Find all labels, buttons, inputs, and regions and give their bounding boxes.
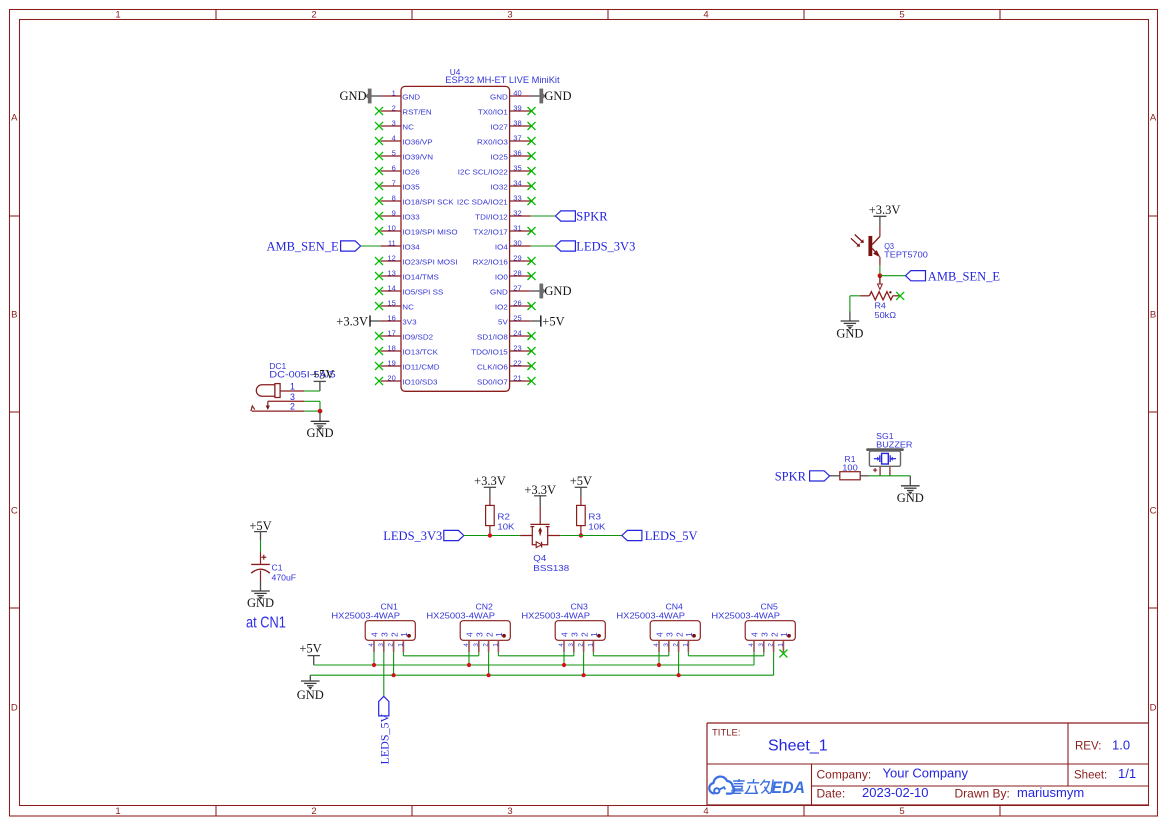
svg-text:GND: GND: [490, 93, 508, 102]
svg-text:1/1: 1/1: [1118, 766, 1136, 781]
svg-text:Date:: Date:: [817, 787, 846, 801]
svg-text:Drawn By:: Drawn By:: [955, 787, 1010, 801]
svg-text:17: 17: [387, 330, 396, 337]
svg-text:4: 4: [558, 643, 565, 647]
svg-text:IO4: IO4: [495, 243, 508, 252]
svg-text:LEDS_3V3: LEDS_3V3: [383, 529, 442, 543]
svg-text:4: 4: [750, 632, 760, 637]
svg-text:3: 3: [663, 643, 670, 647]
svg-text:RX2/IO16: RX2/IO16: [473, 258, 508, 267]
svg-text:16: 16: [387, 315, 396, 322]
svg-text:2: 2: [392, 105, 396, 112]
svg-text:AMB_SEN_E: AMB_SEN_E: [928, 269, 1001, 283]
svg-text:10: 10: [387, 225, 396, 232]
svg-text:2: 2: [768, 643, 775, 647]
svg-text:Sheet:: Sheet:: [1074, 770, 1107, 782]
svg-text:SPKR: SPKR: [775, 470, 807, 484]
svg-text:2: 2: [673, 643, 680, 647]
svg-text:1: 1: [392, 90, 396, 97]
svg-text:IO18/SPI SCK: IO18/SPI SCK: [402, 198, 453, 207]
svg-text:2: 2: [388, 643, 395, 647]
svg-text:31: 31: [513, 225, 522, 232]
svg-text:2: 2: [579, 632, 589, 637]
svg-text:IO35: IO35: [402, 183, 419, 192]
svg-text:3: 3: [568, 643, 575, 647]
svg-text:Sheet_1: Sheet_1: [768, 738, 828, 755]
svg-text:GND: GND: [544, 284, 571, 298]
svg-text:mariusmym: mariusmym: [1017, 785, 1084, 800]
svg-text:1: 1: [115, 806, 120, 817]
svg-text:3: 3: [665, 632, 675, 637]
svg-text:C1: C1: [272, 564, 284, 573]
svg-text:4: 4: [465, 632, 475, 637]
svg-text:LEDS_3V3: LEDS_3V3: [576, 240, 635, 254]
svg-text:3: 3: [570, 632, 580, 637]
svg-text:RX0/IO3: RX0/IO3: [477, 138, 508, 147]
svg-text:3: 3: [758, 643, 765, 647]
svg-text:4: 4: [703, 806, 708, 817]
svg-text:TITLE:: TITLE:: [712, 728, 741, 739]
svg-text:B: B: [11, 309, 17, 320]
svg-text:R2: R2: [497, 513, 510, 522]
svg-text:5: 5: [392, 150, 396, 157]
svg-text:RST/EN: RST/EN: [402, 108, 431, 117]
svg-text:3: 3: [392, 120, 396, 127]
svg-text:GND: GND: [897, 491, 924, 505]
svg-text:Q3: Q3: [884, 242, 894, 251]
svg-text:7: 7: [392, 180, 396, 187]
svg-text:470uF: 470uF: [272, 573, 297, 582]
svg-text:4: 4: [703, 9, 708, 20]
svg-text:3: 3: [507, 9, 512, 20]
svg-text:5: 5: [899, 9, 904, 20]
svg-text:32: 32: [513, 210, 522, 217]
svg-text:21: 21: [513, 375, 522, 382]
svg-text:4: 4: [560, 632, 570, 637]
svg-text:3: 3: [380, 632, 390, 637]
svg-text:IO34: IO34: [402, 243, 419, 252]
svg-text:TDO/IO15: TDO/IO15: [471, 348, 508, 357]
svg-text:4: 4: [653, 643, 660, 647]
svg-text:IO13/TCK: IO13/TCK: [402, 348, 438, 357]
svg-text:29: 29: [513, 255, 522, 262]
svg-text:LEDS_5V: LEDS_5V: [377, 714, 391, 765]
svg-text:C: C: [11, 505, 18, 516]
svg-text:B: B: [1150, 309, 1156, 320]
svg-text:SD1/IO8: SD1/IO8: [477, 333, 508, 342]
svg-text:1: 1: [493, 643, 500, 647]
svg-text:GND: GND: [306, 426, 333, 440]
svg-text:4: 4: [370, 632, 380, 637]
svg-text:2: 2: [769, 632, 779, 637]
svg-text:2023-02-10: 2023-02-10: [862, 785, 929, 800]
svg-text:14: 14: [387, 285, 396, 292]
svg-text:IO23/SPI MOSI: IO23/SPI MOSI: [402, 258, 457, 267]
svg-text:37: 37: [513, 135, 522, 142]
svg-text:GND: GND: [402, 93, 420, 102]
svg-text:4: 4: [748, 643, 755, 647]
svg-text:1: 1: [683, 643, 690, 647]
svg-text:+5V: +5V: [570, 474, 592, 488]
svg-text:20: 20: [387, 375, 396, 382]
svg-text:36: 36: [513, 150, 522, 157]
svg-text:23: 23: [513, 345, 522, 352]
svg-text:+3.3V: +3.3V: [869, 203, 901, 217]
svg-text:28: 28: [513, 270, 522, 277]
svg-text:IO11/CMD: IO11/CMD: [402, 363, 440, 372]
svg-text:34: 34: [513, 180, 522, 187]
svg-text:+3.3V: +3.3V: [336, 315, 368, 329]
svg-text:33: 33: [513, 195, 522, 202]
svg-text:1: 1: [588, 643, 595, 647]
svg-text:GND: GND: [297, 688, 324, 702]
svg-text:2: 2: [483, 643, 490, 647]
svg-text:Your Company: Your Company: [883, 766, 969, 781]
svg-text:40: 40: [513, 90, 522, 97]
svg-text:+5V: +5V: [299, 641, 321, 655]
svg-text:AMB_SEN_E: AMB_SEN_E: [266, 240, 339, 254]
svg-text:IO36/VP: IO36/VP: [402, 138, 432, 147]
svg-text:30: 30: [513, 240, 522, 247]
svg-text:I2C SDA/IO21: I2C SDA/IO21: [457, 198, 508, 207]
svg-text:TEPT5700: TEPT5700: [884, 251, 928, 260]
svg-text:IO39/VN: IO39/VN: [402, 153, 433, 162]
svg-text:GND: GND: [340, 89, 367, 103]
svg-text:3: 3: [507, 806, 512, 817]
svg-text:IO32: IO32: [490, 183, 507, 192]
svg-text:IO26: IO26: [402, 168, 419, 177]
svg-text:NC: NC: [402, 303, 414, 312]
svg-text:19: 19: [387, 360, 396, 367]
svg-text:38: 38: [513, 120, 522, 127]
svg-text:at CN1: at CN1: [246, 615, 286, 632]
svg-text:8: 8: [392, 195, 396, 202]
svg-text:NC: NC: [402, 123, 414, 132]
svg-text:HX25003-4WAP: HX25003-4WAP: [426, 610, 495, 620]
svg-text:TX0/IO1: TX0/IO1: [478, 108, 508, 117]
svg-text:SD0/IO7: SD0/IO7: [477, 378, 508, 387]
svg-text:Q4: Q4: [533, 554, 547, 563]
svg-text:IO19/SPI MISO: IO19/SPI MISO: [402, 228, 457, 237]
svg-text:GND: GND: [490, 288, 508, 297]
svg-text:2: 2: [578, 643, 585, 647]
svg-text:1: 1: [684, 632, 694, 637]
svg-text:+5V: +5V: [542, 315, 564, 329]
svg-text:SPKR: SPKR: [576, 210, 608, 224]
svg-text:BSS138: BSS138: [533, 564, 570, 573]
svg-text:11: 11: [388, 240, 396, 247]
svg-text:R3: R3: [588, 513, 601, 522]
svg-text:10K: 10K: [588, 523, 606, 532]
svg-text:1: 1: [589, 632, 599, 637]
svg-text:18: 18: [387, 345, 396, 352]
svg-text:GND: GND: [247, 596, 274, 610]
svg-text:BUZZER: BUZZER: [876, 440, 913, 449]
svg-text:27: 27: [513, 285, 522, 292]
svg-text:5V: 5V: [498, 318, 508, 327]
svg-text:3: 3: [378, 643, 385, 647]
svg-text:5: 5: [899, 806, 904, 817]
svg-text:25: 25: [513, 315, 522, 322]
svg-text:IO14/TMS: IO14/TMS: [402, 273, 439, 282]
svg-text:IO2: IO2: [495, 303, 508, 312]
svg-text:GND: GND: [544, 89, 571, 103]
svg-text:100: 100: [842, 463, 858, 472]
svg-text:EDA: EDA: [772, 779, 806, 797]
svg-text:IO27: IO27: [490, 123, 507, 132]
svg-text:IO5/SPI SS: IO5/SPI SS: [402, 288, 443, 297]
svg-text:10K: 10K: [497, 523, 515, 532]
svg-text:TX2/IO17: TX2/IO17: [473, 228, 507, 237]
svg-text:4: 4: [655, 632, 665, 637]
svg-text:ESP32 MH-ET LIVE MiniKit: ESP32 MH-ET LIVE MiniKit: [445, 75, 560, 85]
svg-text:TDI/IO12: TDI/IO12: [475, 213, 508, 222]
svg-text:REV:: REV:: [1075, 741, 1101, 753]
svg-text:1: 1: [778, 643, 785, 647]
svg-text:HX25003-4WAP: HX25003-4WAP: [521, 610, 590, 620]
svg-text:22: 22: [513, 360, 522, 367]
svg-text:IO33: IO33: [402, 213, 419, 222]
svg-text:1: 1: [779, 632, 789, 637]
svg-text:+3.3V: +3.3V: [524, 483, 556, 497]
svg-text:2: 2: [290, 402, 295, 412]
svg-text:Company:: Company:: [817, 768, 872, 782]
svg-text:D: D: [11, 702, 18, 713]
svg-text:A: A: [1150, 112, 1157, 123]
svg-text:+5V: +5V: [312, 368, 334, 382]
svg-text:2: 2: [389, 632, 399, 637]
svg-text:13: 13: [387, 270, 396, 277]
svg-text:50kΩ: 50kΩ: [875, 311, 897, 320]
svg-text:4: 4: [463, 643, 470, 647]
svg-text:1.0: 1.0: [1112, 738, 1130, 753]
svg-text:3: 3: [290, 392, 295, 402]
svg-text:4: 4: [368, 643, 375, 647]
svg-text:1: 1: [494, 632, 504, 637]
svg-text:2: 2: [484, 632, 494, 637]
svg-text:2: 2: [674, 632, 684, 637]
svg-text:IO10/SD3: IO10/SD3: [402, 378, 437, 387]
svg-text:IO0: IO0: [495, 273, 508, 282]
svg-text:HX25003-4WAP: HX25003-4WAP: [711, 610, 780, 620]
svg-text:39: 39: [513, 105, 522, 112]
svg-text:35: 35: [513, 165, 522, 172]
svg-text:+3.3V: +3.3V: [474, 474, 506, 488]
svg-text:+5V: +5V: [249, 519, 271, 533]
svg-text:12: 12: [387, 255, 396, 262]
svg-text:26: 26: [513, 300, 522, 307]
svg-text:LEDS_5V: LEDS_5V: [645, 529, 698, 543]
svg-text:R4: R4: [875, 301, 887, 310]
svg-text:D: D: [1150, 702, 1157, 713]
svg-text:CLK/IO6: CLK/IO6: [477, 363, 508, 372]
svg-text:HX25003-4WAP: HX25003-4WAP: [616, 610, 685, 620]
svg-text:3: 3: [760, 632, 770, 637]
svg-text:HX25003-4WAP: HX25003-4WAP: [331, 610, 400, 620]
svg-text:IO9/SD2: IO9/SD2: [402, 333, 433, 342]
svg-text:C: C: [1150, 505, 1157, 516]
svg-text:9: 9: [392, 210, 396, 217]
svg-text:2: 2: [311, 806, 316, 817]
svg-text:1: 1: [115, 9, 120, 20]
svg-text:3: 3: [473, 643, 480, 647]
svg-text:3V3: 3V3: [402, 318, 416, 327]
svg-text:1: 1: [398, 643, 405, 647]
svg-text:2: 2: [311, 9, 316, 20]
svg-text:4: 4: [392, 135, 396, 142]
svg-text:A: A: [11, 112, 18, 123]
svg-text:1: 1: [290, 382, 295, 392]
svg-text:IO25: IO25: [490, 153, 507, 162]
svg-text:24: 24: [513, 330, 522, 337]
svg-text:GND: GND: [836, 326, 863, 340]
svg-text:6: 6: [392, 165, 396, 172]
svg-text:3: 3: [475, 632, 485, 637]
svg-text:1: 1: [399, 632, 409, 637]
svg-text:I2C SCL/IO22: I2C SCL/IO22: [458, 168, 508, 177]
svg-text:15: 15: [387, 300, 396, 307]
